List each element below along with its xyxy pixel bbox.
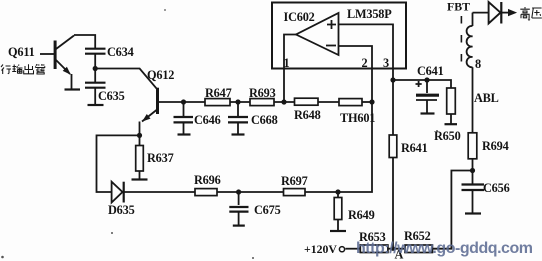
transistor Q611 [40, 36, 80, 90]
resistor R637 [136, 135, 144, 179]
svg-text:R637: R637 [147, 151, 174, 165]
ground bar below C675 [233, 225, 245, 227]
minus input mark [326, 45, 336, 47]
resistor R693 [250, 99, 274, 106]
svg-text:R696: R696 [194, 173, 221, 187]
svg-text:+120V: +120V [304, 242, 337, 256]
FBT primary coil [467, 13, 473, 133]
wire R696 to R697 [217, 191, 284, 193]
node: ABL junction [470, 168, 475, 173]
svg-text:C675: C675 [254, 203, 281, 217]
svg-text:1: 1 [284, 56, 290, 70]
svg-text:LM358P: LM358P [347, 7, 392, 21]
ground bar below C641 [421, 112, 435, 114]
op-amp U: triangle [296, 13, 339, 55]
svg-text:FBT: FBT [447, 0, 470, 14]
node: R649 junction [335, 189, 340, 194]
svg-text:3: 3 [383, 56, 389, 70]
capacitor C635 [85, 69, 106, 105]
ground bar below R649 [330, 230, 346, 232]
wire: Q612 base to main row [159, 101, 205, 103]
ground bar below C656 [465, 212, 481, 214]
wire R693 to R648 [274, 101, 296, 103]
ground bar below C635 [88, 104, 104, 106]
wire: R652 up to ABL node [432, 171, 472, 249]
terminal: +120V input circle [339, 247, 344, 252]
thermistor TH601 [339, 99, 362, 106]
svg-text:D635: D635 [108, 203, 135, 217]
capacitor C656 [462, 171, 485, 214]
diode D635 [112, 182, 195, 203]
svg-text:8: 8 [475, 57, 481, 71]
capacitor C641 (electrolytic, + mark) [416, 80, 440, 113]
node: pin2 junction [369, 99, 374, 104]
wire TH601 to pin2 node [362, 101, 372, 103]
svg-text:ABL: ABL [474, 91, 499, 105]
svg-text:Q612: Q612 [147, 68, 174, 82]
capacitor C668 [228, 102, 248, 134]
node: C634/C635/Q612-collector junction [93, 66, 98, 71]
wire: minus input to pin 2 [338, 46, 372, 102]
node: pin3 junction [390, 77, 395, 82]
resistor R647 [205, 99, 230, 106]
op-amp IC602 box [272, 3, 406, 69]
wire R653 to R652 [388, 248, 405, 250]
EHT rectifier diode [473, 2, 518, 24]
svg-text:http://www.go-gddq.com: http://www.go-gddq.com [356, 240, 533, 257]
svg-text:2: 2 [362, 56, 368, 70]
svg-text:C635: C635 [98, 89, 125, 103]
wire: emitter junction down-left to D635 [97, 135, 140, 192]
svg-text:TH601: TH601 [340, 111, 375, 125]
svg-text:C668: C668 [251, 113, 278, 127]
wire: pin3 node to R650 [393, 80, 451, 88]
resistor R653 [360, 245, 388, 253]
resistor R696 [195, 189, 217, 196]
ground bar below R650 [445, 123, 458, 125]
svg-text:R649: R649 [348, 208, 375, 222]
node: C646 junction [181, 99, 186, 104]
svg-text:IC602: IC602 [284, 10, 315, 24]
ground bar below R637 [132, 178, 148, 180]
resistor R694 [468, 133, 477, 171]
label 高压 (Chinese: high voltage) [520, 7, 542, 18]
resistor R641 [389, 80, 397, 249]
wire R647 to R693 [230, 101, 250, 103]
resistor R650 [447, 88, 456, 124]
svg-text:Q611: Q611 [8, 45, 35, 59]
svg-text:C646: C646 [194, 113, 221, 127]
transistor Q612 [140, 88, 160, 136]
ground bar below C668 [232, 133, 245, 135]
label 行输出管 (Chinese: horizontal output transistor) [1, 64, 45, 74]
capacitor C675 [229, 192, 248, 225]
resistor R648 [295, 98, 319, 105]
svg-text:C656: C656 [483, 181, 510, 195]
resistor R649 [334, 192, 342, 231]
svg-text:C641: C641 [417, 64, 444, 78]
capacitor C646 [174, 102, 194, 134]
wire: terminal to R653 [345, 248, 360, 250]
wire R697 to pin2 drop [305, 102, 372, 192]
svg-text:C634: C634 [107, 45, 134, 59]
svg-text:R693: R693 [249, 86, 276, 100]
svg-text:R694: R694 [482, 139, 509, 153]
wire: plus input to pin 3 [338, 24, 393, 80]
node: pin1 junction [281, 99, 286, 104]
svg-text:R641: R641 [401, 141, 428, 155]
capacitor C634 [85, 49, 106, 69]
node: C675 junction [236, 189, 241, 194]
FBT core (dashed line) [460, 16, 462, 65]
wire: op-amp output to pin 1 [284, 35, 296, 103]
resistor R652 [405, 245, 432, 253]
svg-text:R648: R648 [294, 108, 321, 122]
svg-text:R697: R697 [281, 174, 308, 188]
wire: junction to Q612 collector [95, 69, 157, 89]
wire: Q611 collector to top rail [74, 35, 95, 48]
plus input mark [327, 20, 336, 29]
resistor R697 [284, 189, 306, 196]
wire R648 to TH601 [318, 101, 339, 103]
node: A junction [391, 247, 395, 251]
node: C641 junction [424, 77, 429, 82]
node: C668 junction [235, 99, 240, 104]
ground bar below C646 [178, 133, 191, 135]
node: Q612 emitter junction [137, 133, 142, 138]
svg-text:R647: R647 [205, 86, 232, 100]
